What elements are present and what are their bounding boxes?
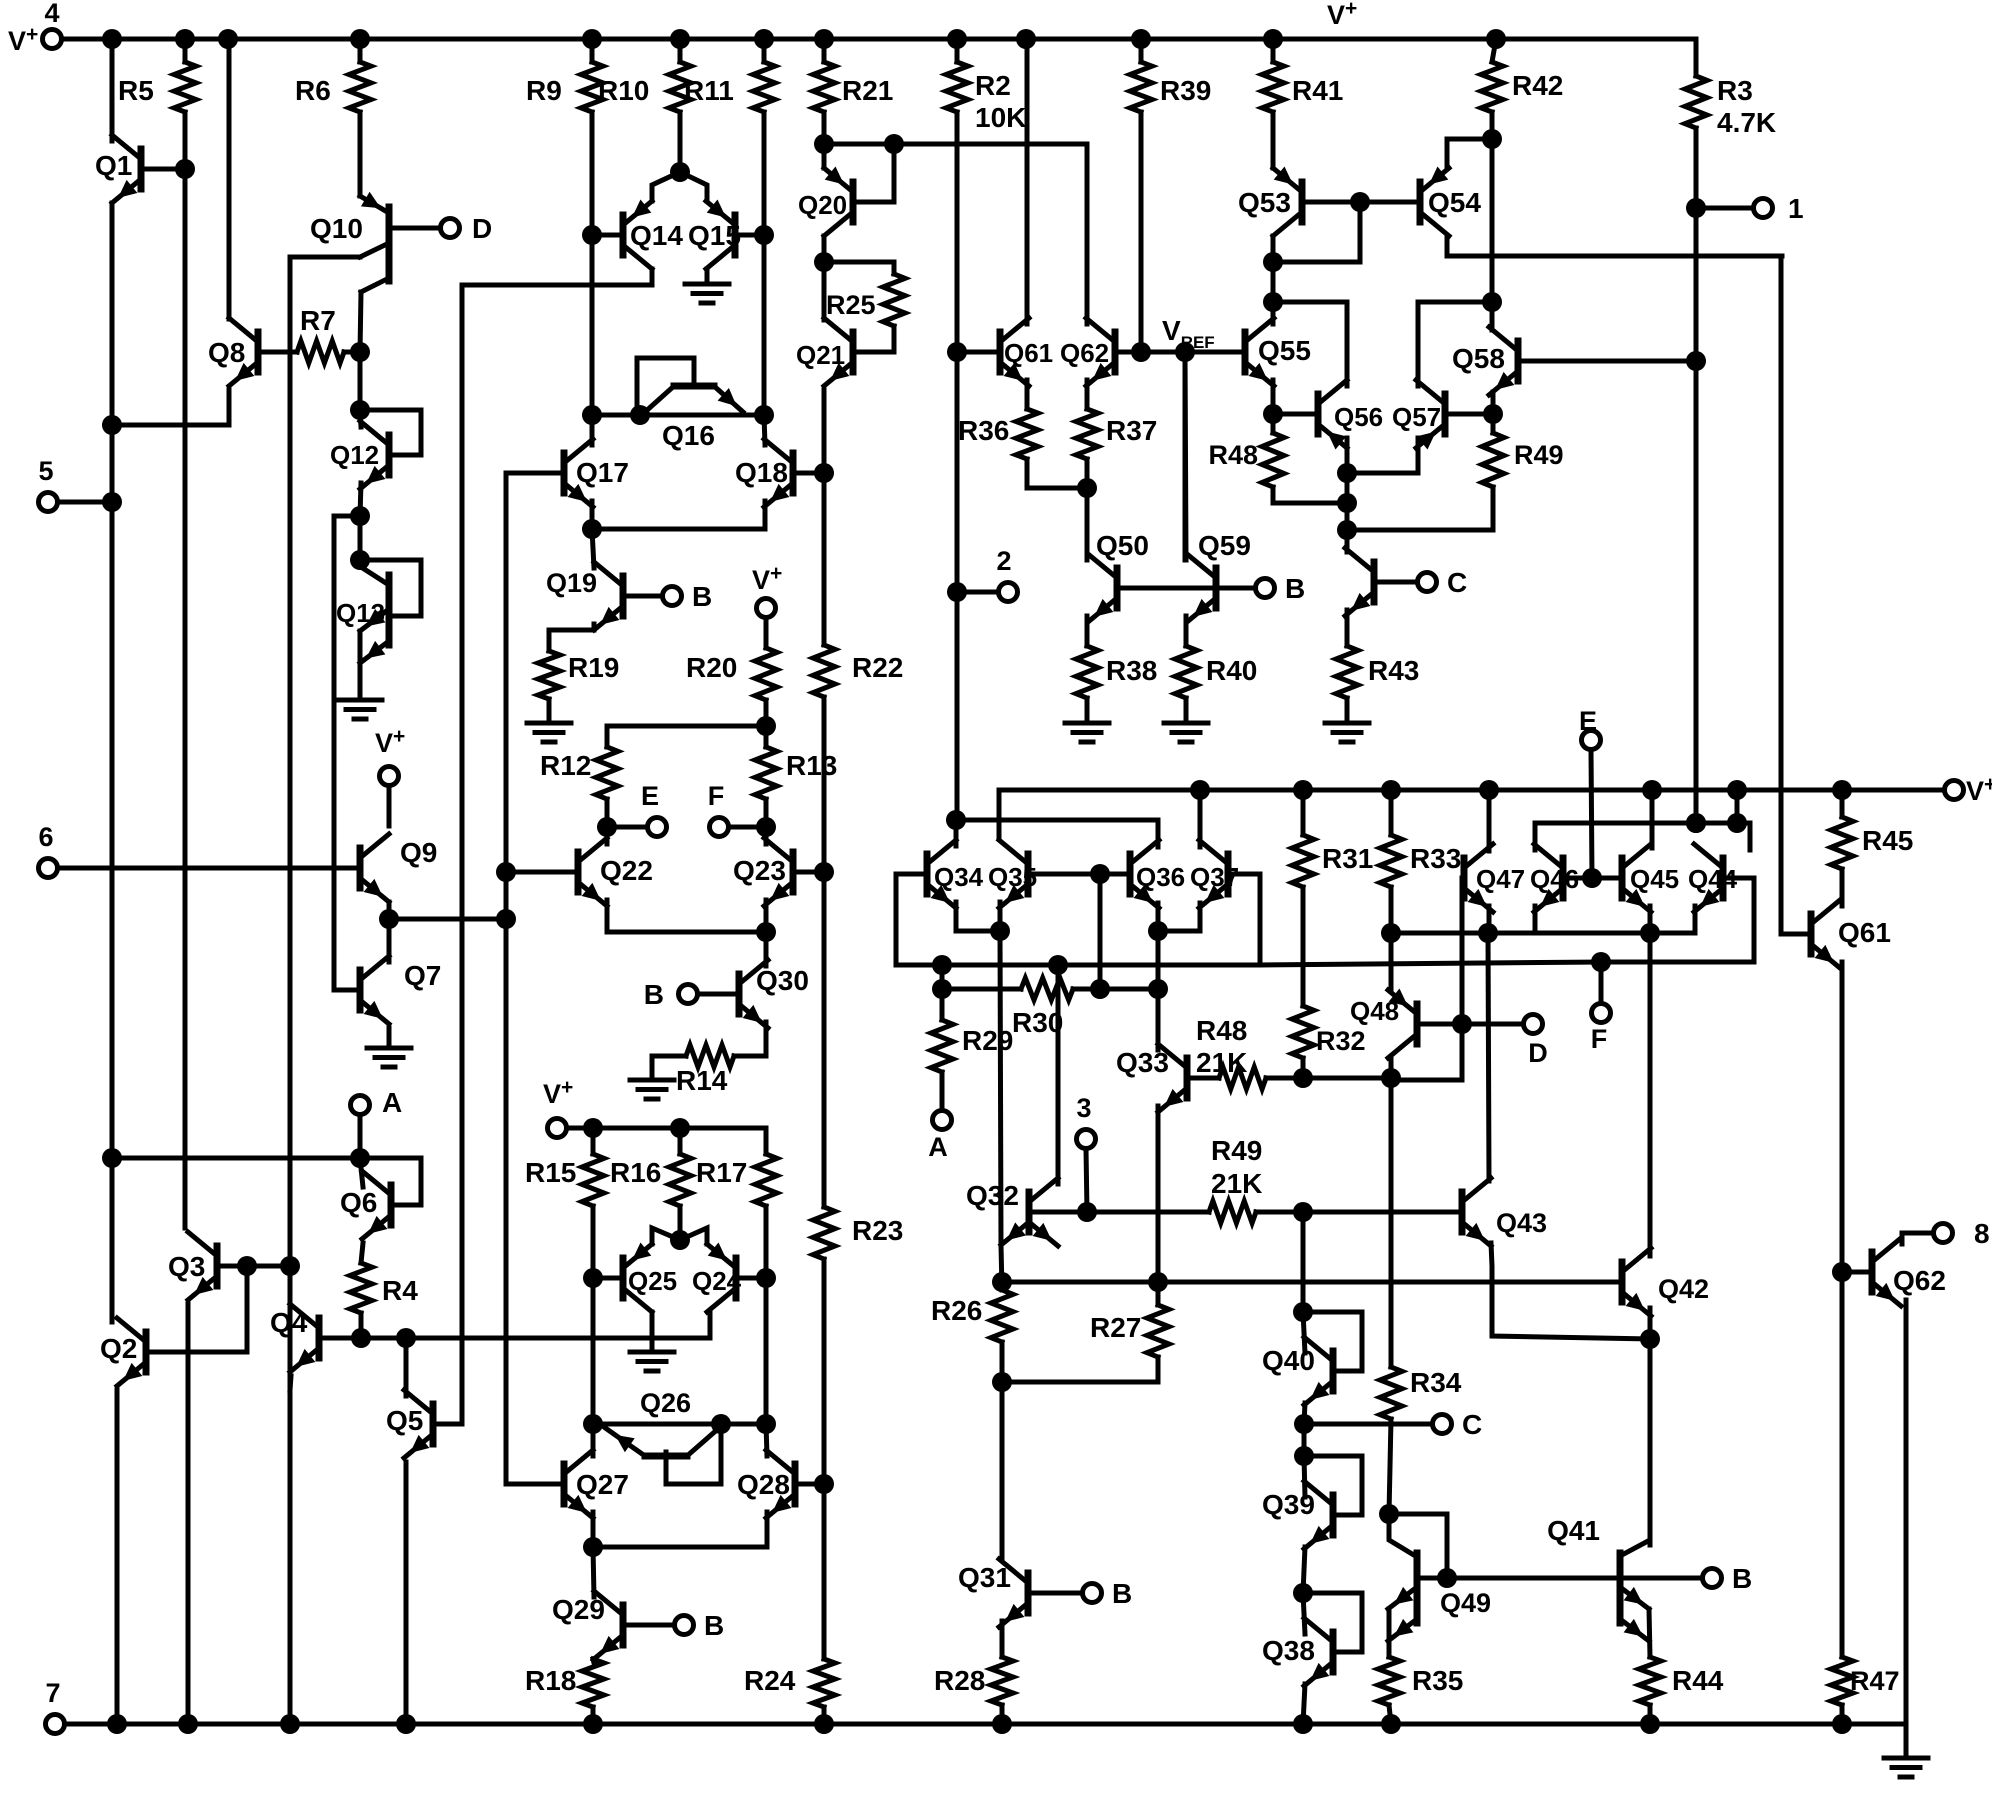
wire D node to D terminal: [1462, 1022, 1523, 1027]
transistor Q61 (bias): [1000, 318, 1029, 386]
terminal pin 6: [39, 859, 58, 878]
svg-text:Q41: Q41: [1547, 1515, 1600, 1546]
junction Q28 collector node: [756, 1414, 776, 1434]
junction R16 top: [670, 1118, 690, 1138]
svg-text:R28: R28: [934, 1665, 985, 1696]
terminal V+ left of R15: [548, 1119, 567, 1138]
wire Q54 collector down: [1445, 236, 1450, 256]
wire Q54 emitter to R42: [1447, 137, 1492, 142]
wire Q14 emitter link: [652, 172, 680, 201]
wire Q31 collector riser: [1000, 1382, 1005, 1558]
wire R29 to A: [940, 1072, 945, 1110]
wire x824 Q18-R22: [822, 473, 827, 645]
junction pin 5 node: [102, 492, 122, 512]
junction R39/VREF: [1131, 342, 1151, 362]
svg-text:Q47: Q47: [1476, 864, 1525, 894]
junction Q23 base: [814, 862, 834, 882]
wire y823 row: [1535, 821, 1737, 826]
transistor Q18: [764, 439, 793, 507]
wire to Q7 base column: [334, 516, 360, 990]
wire Q44 emitter link: [1693, 906, 1698, 933]
wire Q32 emitter diag: [1001, 1222, 1029, 1245]
junction Q43 emitter node: [1640, 1329, 1660, 1349]
terminal D (comp): [1524, 1015, 1543, 1034]
junction output rail x=1842: [1832, 780, 1852, 800]
resistor R30: [1021, 978, 1073, 1000]
wire base riser down: [1098, 874, 1103, 989]
wire A riser: [940, 965, 945, 989]
terminal V+ right: [1945, 781, 1964, 800]
junction Q43/y933: [1478, 923, 1498, 943]
resistor R33: [1380, 835, 1402, 887]
svg-text:B: B: [644, 979, 664, 1010]
svg-text:R49: R49: [1514, 440, 1564, 470]
junction R4 / base row: [351, 1328, 371, 1348]
terminal A (comp): [933, 1111, 952, 1130]
svg-text:Q20: Q20: [798, 190, 847, 220]
wire D node riser to Q47 base: [1460, 878, 1465, 1024]
svg-text:C: C: [1462, 1409, 1482, 1440]
junction top rail x=1496: [1486, 29, 1506, 49]
wire R16 bottom: [678, 1206, 683, 1240]
wire R36 to Q50 node: [1027, 459, 1087, 488]
wire Q25 emitter link: [652, 1228, 680, 1244]
junction pin2 node: [947, 582, 967, 602]
wire Q59 emitter down: [1184, 616, 1189, 646]
svg-text:R47: R47: [1850, 1666, 1900, 1696]
junction Q3 base / x290: [280, 1256, 300, 1276]
wire Q24 base stub: [736, 1276, 766, 1281]
wire C wire: [1304, 1422, 1432, 1427]
transistor Q32: [1029, 1178, 1058, 1246]
junction bottom rail x=117: [107, 1714, 127, 1734]
resistor R5: [174, 62, 196, 112]
wire Q19 collector riser: [592, 529, 594, 568]
svg-text:Q4: Q4: [270, 1307, 308, 1338]
wire Q57-Q58 tie: [1418, 300, 1492, 305]
wire Q44-Q46 node to rail: [1735, 790, 1740, 823]
svg-text:4.7K: 4.7K: [1717, 107, 1776, 138]
wire Q12 collector diag join: [360, 410, 361, 427]
svg-text:Q57: Q57: [1392, 402, 1441, 432]
junction top rail x=957: [947, 29, 967, 49]
wire R47 to rail: [1840, 1705, 1845, 1724]
junction bottom rail x=824: [814, 1714, 834, 1734]
svg-text:R27: R27: [1090, 1312, 1141, 1343]
wire V+ to R20: [764, 618, 769, 648]
junction bottom rail x=1650: [1640, 1714, 1660, 1734]
svg-text:Q37: Q37: [1190, 862, 1239, 892]
junction y823/node1: [1686, 813, 1706, 833]
wire F to node: [729, 825, 756, 830]
svg-text:4: 4: [44, 0, 59, 28]
svg-text:Q62: Q62: [1893, 1265, 1946, 1296]
svg-text:Q62: Q62: [1060, 338, 1109, 368]
resistor R28: [991, 1657, 1013, 1705]
svg-text:R24: R24: [744, 1665, 796, 1696]
wire rail corner down to R3: [1694, 39, 1699, 76]
junction Q20 base riser: [884, 134, 904, 154]
transistor Q36: [1130, 840, 1159, 908]
resistor R25: [883, 274, 905, 326]
wire R25 top link: [824, 262, 894, 274]
resistor R2: [946, 62, 968, 112]
wire R11 top: [762, 39, 767, 62]
svg-text:R26: R26: [931, 1295, 982, 1326]
wire Q32 base row: [1029, 1210, 1209, 1215]
junction Q30 collector node: [756, 922, 776, 942]
transistor Q2: [117, 1318, 146, 1386]
transistor Q55: [1245, 318, 1274, 386]
wire Q29 collector riser: [593, 1547, 594, 1597]
junction top rail x=228: [218, 29, 238, 49]
wire R9 line to Q16 row: [590, 235, 595, 415]
junction Q20 collector node: [814, 252, 834, 272]
svg-text:R36: R36: [958, 415, 1009, 446]
wire R17 top: [764, 1128, 769, 1154]
junction top rail x=824: [814, 29, 834, 49]
svg-text:R38: R38: [1106, 655, 1157, 686]
wire Q27 base: [506, 1482, 564, 1487]
ground below R43: [1325, 723, 1369, 742]
transistor Q45: [1622, 844, 1651, 912]
wire C-follower emitter down: [1345, 610, 1350, 646]
svg-text:B: B: [1285, 573, 1305, 604]
wire Q58 emitter down: [1491, 392, 1496, 414]
junction top rail x=1141: [1131, 29, 1151, 49]
svg-text:Q27: Q27: [576, 1469, 629, 1500]
wire Q45 collector riser: [1650, 790, 1655, 848]
svg-text:Q42: Q42: [1658, 1274, 1709, 1304]
wire R4 to Q4 base row: [359, 1313, 364, 1338]
terminal pin 2: [999, 583, 1018, 602]
wire Q7 collector up: [387, 919, 392, 962]
wire Q36 emitter down: [1156, 903, 1161, 931]
junction x1002/y1282: [992, 1272, 1012, 1292]
resistor R48 21K: [1219, 1067, 1266, 1089]
svg-text:D: D: [472, 213, 492, 244]
ground below R38: [1065, 723, 1109, 742]
wire Q59 collector riser: [1185, 352, 1186, 560]
svg-text:R29: R29: [962, 1025, 1013, 1056]
wire Q7 emitter to ground: [387, 1028, 392, 1048]
wire Q34 collector riser: [954, 820, 959, 846]
wire Q15 emitter link: [680, 172, 707, 201]
resistor R10: [669, 62, 691, 112]
svg-text:Q6: Q6: [340, 1187, 377, 1218]
transistor Q10: [360, 192, 440, 292]
svg-text:Q59: Q59: [1198, 530, 1251, 561]
wire R15 line down: [591, 1278, 596, 1424]
wire R17 line down: [764, 1278, 769, 1424]
wire Q56 base stub: [1273, 412, 1318, 417]
terminal D (Q10 base): [441, 219, 460, 238]
svg-text:Q16: Q16: [662, 420, 715, 451]
transistor Q6: [362, 1171, 391, 1239]
wire Q20 base loop: [853, 144, 894, 202]
junction Q26 right node: [711, 1414, 731, 1434]
wire Q58 base row: [1518, 359, 1696, 364]
svg-text:R3: R3: [1717, 75, 1753, 106]
wire Q61r to R47: [1840, 1272, 1845, 1657]
wire E to node: [617, 825, 647, 830]
svg-text:Q2: Q2: [100, 1333, 137, 1364]
wire node1 vertical below rail: [1694, 794, 1699, 823]
ground below Q25: [630, 1352, 674, 1371]
svg-text:R41: R41: [1292, 75, 1343, 106]
wire Q5 collector riser: [404, 1338, 409, 1396]
wire x1347 segment: [1345, 473, 1350, 548]
resistor R14: [686, 1045, 734, 1067]
transistor Q20: [824, 167, 853, 237]
wire Q41 collector diag: [1620, 1339, 1650, 1556]
wire R48v bottom: [1273, 487, 1347, 503]
transistor Q24: [707, 1243, 736, 1313]
resistor R16: [669, 1154, 691, 1206]
wire Q1 collector from rail: [110, 39, 115, 141]
junction Q15 base: [754, 225, 774, 245]
wire Q9 emitter down: [387, 902, 392, 919]
svg-text:Q29: Q29: [552, 1594, 605, 1625]
wire R39 down to VREF: [1139, 112, 1144, 352]
junction Q7/Q9 node: [379, 909, 399, 929]
wire Q35-Q36 base row: [1028, 872, 1130, 877]
wire R40 ground stem: [1184, 698, 1189, 721]
wire Q2 collector diag join: [110, 1314, 115, 1322]
svg-text:Q25: Q25: [628, 1266, 677, 1296]
svg-text:R6: R6: [295, 75, 331, 106]
svg-text:B: B: [704, 1610, 724, 1641]
svg-text:B: B: [1112, 1578, 1132, 1609]
svg-text:Q23: Q23: [733, 855, 786, 886]
transistor Q34: [927, 840, 956, 908]
wire x1002 emitters down: [1000, 931, 1001, 1245]
wire x506 long vertical: [504, 473, 509, 1484]
resistor R13: [755, 747, 777, 799]
svg-text:R32: R32: [1316, 1026, 1366, 1056]
wire R12 bottom: [605, 799, 610, 827]
wire Q1 emitter down: [110, 203, 115, 425]
wire y820 row to Q36: [956, 818, 1158, 823]
wire Q6 collector diag join: [360, 1158, 363, 1187]
junction output rail x=1652: [1642, 780, 1662, 800]
wire Q42 emitter down: [1648, 1308, 1653, 1339]
svg-text:D: D: [1528, 1038, 1548, 1068]
ground below R14: [630, 1080, 674, 1099]
wire R6 down to Q10: [358, 112, 363, 196]
junction y965/A-riser: [932, 955, 952, 975]
wire R25 bottom link: [853, 326, 894, 352]
wire R9 top: [590, 39, 595, 62]
wire Q29 emitter: [593, 1659, 594, 1663]
transistor Q49 (double emitter): [1388, 1553, 1417, 1641]
svg-text:R2: R2: [975, 70, 1011, 101]
wire Q17 base left: [506, 471, 564, 476]
wire Q54 emitter riser: [1445, 139, 1450, 168]
wire Q58 collector riser: [1490, 302, 1495, 330]
svg-text:Q22: Q22: [600, 855, 653, 886]
wire Q47 emitter down: [1487, 906, 1492, 933]
transistor Q14: [623, 200, 652, 270]
wire Q19 base to B: [623, 594, 662, 599]
wire R41 down: [1271, 112, 1276, 168]
wire pin3 down: [1086, 1149, 1087, 1212]
wire Q37 emitter link: [1158, 903, 1200, 931]
terminal F (comp): [1592, 1004, 1611, 1023]
wire R27 bottom hook: [1002, 1357, 1158, 1382]
wire R42 line down: [1490, 139, 1495, 302]
wire y256 row: [1447, 254, 1782, 259]
wire Q6 base loop: [360, 1158, 421, 1205]
svg-text:3: 3: [1076, 1093, 1091, 1123]
svg-text:A: A: [928, 1132, 948, 1162]
wire Q32 collector riser: [1056, 965, 1061, 1184]
wire Q46 emitter link: [1533, 906, 1538, 933]
wire bottom rail: [65, 1722, 1906, 1727]
junction Q57 base / R49v: [1483, 404, 1503, 424]
terminal B (Q30): [679, 985, 698, 1004]
wire x462 vertical: [460, 285, 465, 1424]
junction x506/y919: [496, 909, 516, 929]
wire Q27 emitter down: [591, 1512, 596, 1547]
wire R39 top: [1139, 39, 1144, 62]
wire R41 top: [1271, 39, 1276, 62]
junction Q14 base: [582, 225, 602, 245]
wire Q13 collector diag: [360, 560, 389, 585]
junction A node top: [932, 979, 952, 999]
svg-text:R40: R40: [1206, 655, 1257, 686]
resistor R3: [1685, 76, 1707, 128]
wire Q18 base right: [793, 471, 824, 476]
wire pin5 node down to Q2: [110, 425, 115, 1314]
junction Q20 emitter node: [814, 134, 834, 154]
transistor Q16: [637, 358, 743, 412]
wire Q7-node row to x506: [389, 917, 506, 922]
transistor Q35: [999, 840, 1028, 908]
wire Q22 collector up: [605, 827, 610, 844]
wire Q50 emitter down: [1085, 616, 1090, 646]
junction Q12 collector node: [350, 400, 370, 420]
wire R13 bottom: [764, 799, 769, 827]
svg-text:R10: R10: [598, 75, 649, 106]
resistor R24: [813, 1659, 835, 1707]
wire R15 top: [591, 1128, 596, 1154]
wire R42 top: [1492, 39, 1496, 62]
junction bottom rail x=188: [178, 1714, 198, 1734]
wire Q12 emitter down: [360, 483, 361, 516]
svg-text:R35: R35: [1412, 1665, 1463, 1696]
wire x1781 down to Q61r base: [1779, 256, 1784, 934]
wire Q44 base riser: [1752, 878, 1757, 962]
wire Q61 emitter to R36: [1025, 380, 1030, 409]
wire Q29 base to B: [623, 1623, 674, 1628]
wire Q4 base row: [319, 1336, 710, 1341]
wire R24 to rail: [822, 1707, 827, 1724]
junction Q3-Q2 base tie: [237, 1256, 257, 1276]
wire Q25 collector down: [650, 1312, 655, 1350]
wire R10 top: [678, 39, 683, 62]
wire Q62 collector to pin8: [1902, 1233, 1933, 1244]
wire R22 down to Q23 base: [822, 697, 827, 872]
wire Q55 collector to Q56: [1273, 302, 1347, 386]
junction R20 bottom node: [756, 716, 776, 736]
resistor R15: [582, 1154, 604, 1206]
wire Q49 collector diag: [1389, 1514, 1417, 1557]
svg-text:Q14: Q14: [630, 220, 683, 251]
wire D node to Q48 collector: [1391, 1024, 1462, 1080]
terminal V+ above R20: [757, 599, 776, 618]
junction top rail x=1026: [1016, 29, 1036, 49]
svg-text:Q18: Q18: [735, 457, 788, 488]
svg-text:F: F: [1591, 1024, 1608, 1054]
wire Q33 collector riser: [1156, 989, 1161, 1050]
transistor Q37: [1199, 840, 1228, 908]
resistor R11: [753, 62, 775, 112]
wire Q12-Q13 link: [358, 516, 363, 560]
wire tie to Q53 collector: [1273, 260, 1360, 265]
wire Q2 emitter down to rail: [115, 1390, 120, 1724]
wire Q61 base stub: [957, 350, 1000, 355]
wire Q26 row: [593, 1422, 766, 1427]
svg-text:A: A: [382, 1087, 402, 1118]
svg-text:Q24: Q24: [692, 1266, 742, 1296]
svg-text:Q53: Q53: [1238, 187, 1291, 218]
junction Q62 base: [1832, 1262, 1852, 1282]
svg-text:F: F: [708, 781, 725, 811]
svg-text:Q61: Q61: [1838, 917, 1891, 948]
svg-text:R48: R48: [1208, 440, 1258, 470]
junction Q39 collector node: [1294, 1446, 1314, 1466]
ground bottom right: [1884, 1758, 1928, 1777]
resistor R6: [349, 62, 371, 112]
transistor Q23: [764, 838, 793, 906]
wire Q24 collector down: [708, 1312, 713, 1338]
wire Q44 collector riser: [1737, 823, 1750, 850]
junction Q28 base: [814, 1474, 834, 1494]
junction Q61 base: [947, 342, 967, 362]
wire Q43 collector riser: [1488, 933, 1489, 1181]
wire Q46 collector riser: [1533, 823, 1538, 850]
transistor Q19: [594, 562, 623, 630]
wire R11 down: [762, 112, 767, 235]
wire Q48 collector down: [1389, 1058, 1394, 1078]
wire Q15 base stub: [735, 233, 764, 238]
wire Q49 base stub: [1417, 1576, 1447, 1581]
junction C node: [1294, 1414, 1314, 1434]
junction VREF node: [1175, 342, 1195, 362]
wire y962 row: [1601, 960, 1754, 965]
wire R33 down: [1389, 887, 1394, 933]
junction base riser x1100: [1090, 864, 1110, 884]
svg-text:R22: R22: [852, 652, 903, 683]
svg-text:R39: R39: [1160, 75, 1211, 106]
wire Q28 emitter down: [765, 1512, 770, 1547]
wire y144 down x1087: [1085, 144, 1090, 324]
junction Q49 collector node: [1379, 1504, 1399, 1524]
junction Q45/Q46 bases: [1582, 868, 1602, 888]
svg-text:Q5: Q5: [386, 1405, 423, 1436]
wire Q17 collector up: [590, 415, 595, 445]
transistor C-follower: [1345, 548, 1374, 616]
junction Q56/Q57 emitters: [1337, 463, 1357, 483]
wire Q61r base stub: [1781, 932, 1811, 937]
transistor Q25: [623, 1243, 652, 1313]
junction Q36/Q37 emitters: [1148, 921, 1168, 941]
resistor R23: [813, 1207, 835, 1259]
transistor Q26: [604, 1426, 721, 1484]
transistor Q43: [1462, 1178, 1491, 1246]
wire C-follower base to C: [1374, 580, 1417, 585]
